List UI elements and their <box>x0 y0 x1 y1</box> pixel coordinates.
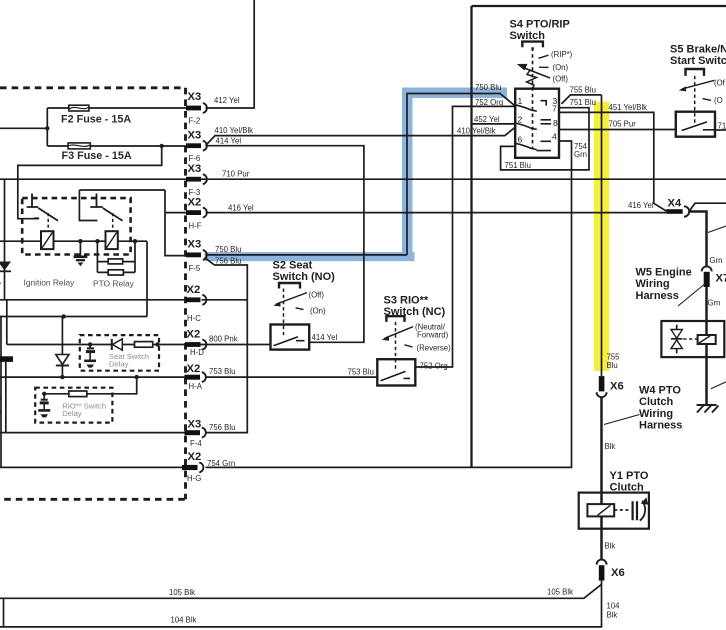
svg-text:105 Blk: 105 Blk <box>547 588 573 597</box>
svg-text:753 Blu: 753 Blu <box>209 367 235 376</box>
wire 412 Yel (F-2 to top edge) <box>206 0 255 108</box>
Y1 coil <box>587 504 614 516</box>
svg-text:Clutch: Clutch <box>610 482 645 494</box>
svg-text:u: u <box>0 393 1 402</box>
svg-text:X4: X4 <box>668 197 682 209</box>
svg-text:Ignition Relay: Ignition Relay <box>24 278 76 288</box>
connector arc X3 F-2 <box>203 103 207 113</box>
wire 410 Yel/Blk (F-6 to S4 pin 2) <box>206 127 516 146</box>
X7 arc <box>702 266 712 271</box>
svg-text:X3: X3 <box>188 418 202 430</box>
connector X2 H-A <box>185 375 201 380</box>
svg-text:2: 2 <box>518 115 523 125</box>
svg-text:X3: X3 <box>188 130 202 142</box>
connector arc X2 H-F <box>203 208 207 218</box>
wire 753 Blu row <box>0 376 377 378</box>
Y1 clutch plates and arc <box>633 501 646 521</box>
svg-text:X6: X6 <box>611 567 625 579</box>
svg-text:Delay: Delay <box>109 359 129 368</box>
PTO relay coil <box>106 231 118 249</box>
svg-text:Y1 PTO: Y1 PTO <box>610 470 649 482</box>
svg-text:8: 8 <box>553 118 558 128</box>
svg-text:Harness: Harness <box>636 290 679 302</box>
wire H-C row left <box>0 299 187 301</box>
svg-text:X7: X7 <box>716 273 726 285</box>
svg-text:751 Blu: 751 Blu <box>505 161 531 170</box>
svg-text:S2 Seat: S2 Seat <box>273 260 313 272</box>
ignition relay coil <box>41 231 118 249</box>
fuse F3 curve <box>69 145 90 146</box>
svg-text:PTO Relay: PTO Relay <box>93 279 135 289</box>
svg-text:X3: X3 <box>188 91 202 103</box>
svg-text:Switch (NC): Switch (NC) <box>384 306 446 318</box>
connector X2 H-F <box>186 210 201 215</box>
svg-text:7: 7 <box>552 104 557 114</box>
wire X4 to X7 (Grn) <box>690 212 707 267</box>
main harness dashed boundary (left module) <box>0 88 186 500</box>
diode (seat delay, on 800 Pnk row) <box>112 339 123 350</box>
PTO relay contact <box>90 194 122 221</box>
svg-text:Switch (NO): Switch (NO) <box>273 271 336 283</box>
wire 754 Grn (H-G row to S4 pin 4) <box>0 141 572 467</box>
svg-text:F-5: F-5 <box>189 264 201 273</box>
svg-text:104 Blk: 104 Blk <box>171 615 197 624</box>
wire 452 Yel <box>472 123 516 125</box>
svg-text:(Reverse): (Reverse) <box>417 344 452 353</box>
PTO relay resistor 1 <box>108 259 123 264</box>
svg-text:X3: X3 <box>188 238 202 250</box>
S5 switch contact inside <box>682 122 715 131</box>
wire X4 upper branch off-page <box>689 203 726 211</box>
svg-text:S3 RIO**: S3 RIO** <box>384 295 429 307</box>
RIO Switch Delay dashed box <box>35 388 112 423</box>
wire F2 fuse row <box>47 107 186 109</box>
svg-text:416 Yel: 416 Yel <box>628 201 654 210</box>
Seat Switch Delay dashed box <box>80 335 159 371</box>
svg-text:Blk: Blk <box>605 442 616 451</box>
connector arc X2 H-A <box>202 372 206 382</box>
wire RIO delay RC link <box>44 377 137 394</box>
connector X6 upper bar <box>599 376 605 391</box>
svg-text:Wiring: Wiring <box>636 278 670 290</box>
svg-text:Wiring: Wiring <box>639 408 673 420</box>
wire 416 Yel (H-F row to X4) <box>206 212 667 214</box>
relay module dashed box <box>22 198 130 254</box>
connector X2 H-C <box>185 297 201 302</box>
connector arcs <box>199 103 711 565</box>
svg-text:X6: X6 <box>610 381 624 393</box>
svg-text:(RIP*): (RIP*) <box>551 50 573 59</box>
svg-text:H-A: H-A <box>189 382 203 391</box>
svg-text:104: 104 <box>607 602 621 611</box>
relay coil dashed actuator links <box>48 213 113 231</box>
svg-text:Harness: Harness <box>639 420 682 432</box>
connector arc X3 F-6 <box>203 141 207 151</box>
svg-text:H-C: H-C <box>187 314 201 323</box>
W5 engine harness component box <box>661 321 724 357</box>
svg-text:(Off): (Off) <box>553 75 569 84</box>
svg-text:750 Blu: 750 Blu <box>215 245 241 254</box>
connector X3 F-3 <box>186 177 201 182</box>
svg-text:105 Blk: 105 Blk <box>169 588 195 597</box>
svg-text:(Of: (Of <box>714 79 726 88</box>
wire far left edge vertical <box>0 317 2 468</box>
S2 lever and arrow <box>273 293 307 310</box>
S4 center dashed line <box>532 48 534 149</box>
connector arc X2 H-C <box>202 295 206 305</box>
svg-text:H-D: H-D <box>190 348 204 357</box>
connector arc X2 H-G <box>199 462 203 472</box>
diode D2 (left, above 753 row) <box>56 355 69 366</box>
S5 lever and arrow <box>679 80 715 100</box>
svg-text:705 Pur: 705 Pur <box>609 119 637 128</box>
svg-text:Blk: Blk <box>605 541 616 550</box>
svg-text:750 Blu: 750 Blu <box>475 83 501 92</box>
svg-text:751 Blu: 751 Blu <box>570 98 596 107</box>
wire 751 Blu loop (S4 pin 6 to pin 7) <box>501 108 589 170</box>
connector X6 lower bar <box>599 565 605 580</box>
pointer line W4 label to wire <box>604 415 640 425</box>
wire 451 Yel/Blk (S4 to X4) <box>559 112 666 211</box>
capacitor (RIO delay) <box>40 394 49 410</box>
svg-text:410 Yel/Blk: 410 Yel/Blk <box>215 126 254 135</box>
svg-text:Start Switch: Start Switch <box>670 55 726 67</box>
connector bar cut at left edge <box>0 356 13 362</box>
svg-text:F3 Fuse - 15A: F3 Fuse - 15A <box>62 150 132 162</box>
svg-text:Switch: Switch <box>510 30 546 42</box>
svg-text:452 Yel: 452 Yel <box>474 115 500 124</box>
svg-text:Grn: Grn <box>574 150 587 159</box>
wire 755 Blu (S4 pin 3 down to X6) <box>562 95 602 376</box>
diode D1 (far left edge) <box>0 262 11 272</box>
S2 bracket <box>279 283 300 289</box>
connector arc X3 F-5 <box>203 250 207 260</box>
S4 pole 1 contacts <box>515 101 551 151</box>
wire relay coil row and return <box>0 241 147 316</box>
ignition relay contact <box>27 194 123 221</box>
engine ground symbol <box>697 405 719 413</box>
svg-text:710 Pur: 710 Pur <box>222 170 250 179</box>
wire diode branch far left <box>4 179 6 300</box>
pointer line W5 label to wire <box>678 283 707 307</box>
svg-text:Grn: Grn <box>708 299 721 308</box>
highlight 755 Blu yellow marker band <box>594 102 609 372</box>
wire S5 output 710 <box>715 129 726 131</box>
S3 RIO Switch box <box>377 359 415 385</box>
fuse F2 symbol <box>68 105 90 149</box>
S4 bracket <box>522 42 543 50</box>
wire relay ground stub <box>79 241 81 256</box>
S4 pole 2 contacts <box>515 123 537 129</box>
wire diode2 branch <box>61 317 63 378</box>
connector X2 H-G <box>182 465 198 470</box>
wire fuse feed from left edge <box>0 108 47 146</box>
svg-text:X2: X2 <box>187 284 201 296</box>
connector X7 bar <box>704 272 710 287</box>
svg-text:S4 PTO/RIP: S4 PTO/RIP <box>510 19 570 31</box>
svg-text:756 Blu: 756 Blu <box>209 423 235 432</box>
S4 lever arrow and positions <box>517 55 550 78</box>
svg-text:6: 6 <box>518 135 523 145</box>
svg-text:(On): (On) <box>310 307 326 316</box>
svg-text:F-4: F-4 <box>190 439 202 448</box>
S2 Seat Switch box <box>271 325 310 350</box>
resistor (seat delay) <box>135 342 153 348</box>
svg-text:414 Yel: 414 Yel <box>216 136 242 145</box>
svg-text:Delay: Delay <box>62 409 82 418</box>
wire bottom left stub <box>3 598 5 627</box>
wire 752 Org (S4 pin1 to S3) <box>415 106 515 367</box>
S4 pole 3 contacts <box>515 143 537 149</box>
X4 arc <box>684 206 689 216</box>
Y1 PTO clutch box <box>579 493 649 529</box>
svg-text:W5 Engine: W5 Engine <box>636 266 692 278</box>
S5 dashed actuator <box>694 76 696 124</box>
wire F3 link to ignition relay pivot <box>18 146 162 219</box>
S4 spring zigzag <box>527 70 537 89</box>
svg-text:71: 71 <box>718 121 726 130</box>
svg-text:X2: X2 <box>187 363 201 375</box>
connector bars X3/X2 on boundary <box>0 106 710 581</box>
svg-text:752 Org: 752 Org <box>475 98 503 107</box>
wire 756 Blu net (F-5 to F-4 and H-C) <box>202 258 248 433</box>
S2 switch contact inside <box>274 337 305 346</box>
svg-text:y: y <box>0 280 1 289</box>
svg-text:412 Yel: 412 Yel <box>214 96 240 105</box>
wire 750 Blu (F-5 to S4 pin 1) <box>206 94 516 255</box>
ground (seat delay) <box>84 361 96 368</box>
svg-text:752 Org: 752 Org <box>420 361 448 370</box>
relay coil (W5) <box>698 335 716 344</box>
fuse F2 curve <box>70 107 89 108</box>
connector X3 F-6 <box>186 143 201 148</box>
capacitor (seat delay) <box>86 345 95 360</box>
svg-text:753 Blu: 753 Blu <box>348 367 374 376</box>
X6 lower arc <box>597 560 607 565</box>
wire 710 Pur (F-3 row, full width) <box>0 178 726 180</box>
wire PTO relay resistor loop <box>97 241 135 272</box>
svg-text:756 Blu: 756 Blu <box>215 256 241 265</box>
connector X3 F-2 <box>186 106 201 111</box>
S4 PTO/RIP switch box <box>515 89 559 158</box>
wire 705 Pur (S4 to S5) <box>559 129 676 131</box>
svg-text:X2: X2 <box>187 328 201 340</box>
wire 414 Yel (F-6 to S2 box) <box>206 146 364 343</box>
S3 bracket <box>386 316 404 322</box>
svg-text:(On): (On) <box>553 63 569 72</box>
svg-text:754 Grn: 754 Grn <box>207 459 235 468</box>
wire X7 to engine ground <box>705 287 708 405</box>
svg-text:F-2: F-2 <box>189 117 201 126</box>
svg-text:n: n <box>0 408 1 417</box>
wire F3 fuse row <box>47 145 186 147</box>
svg-text:F-6: F-6 <box>189 154 201 163</box>
S3 dashed actuator <box>395 322 397 372</box>
svg-text:X2: X2 <box>188 196 202 208</box>
svg-text:800 Pnk: 800 Pnk <box>209 334 238 343</box>
wire Blk X6 to Y1 clutch <box>600 398 603 560</box>
svg-text:S5 Brake/N: S5 Brake/N <box>670 44 726 56</box>
svg-text:H-G: H-G <box>187 474 201 483</box>
wire 800 Pnk (left branch + row through seat delay to S2 box) <box>6 300 271 433</box>
svg-text:Forward): Forward) <box>417 331 449 340</box>
svg-text:451 Yel/Blk: 451 Yel/Blk <box>609 103 648 112</box>
svg-text:410 Yel/Blk: 410 Yel/Blk <box>457 126 496 135</box>
pointer line at right edge near W4 <box>711 382 726 389</box>
svg-text:Blk: Blk <box>607 610 618 619</box>
svg-text:F2 Fuse - 15A: F2 Fuse - 15A <box>61 113 131 125</box>
connector arc X3 F-4 <box>202 428 206 438</box>
wire 104 Blk <box>0 581 602 627</box>
S3 switch contact inside <box>381 371 411 380</box>
svg-text:W4 PTO: W4 PTO <box>639 384 681 396</box>
svg-text:(Off): (Off) <box>309 291 325 300</box>
highlight 750 Blu blue marker band <box>205 88 610 372</box>
svg-text:416 Yel: 416 Yel <box>228 203 254 212</box>
junction dots <box>42 126 164 396</box>
svg-text:(O: (O <box>714 96 723 105</box>
Y1 dashed link <box>614 509 629 511</box>
ground (RIO delay) <box>38 410 50 417</box>
connector X2 H-D <box>185 342 201 347</box>
connector X3 F-4 <box>185 430 201 435</box>
wire H-F / F-5 inner loop <box>79 190 187 256</box>
svg-text:Clutch: Clutch <box>639 396 674 408</box>
S5 Brake/Neutral start switch box <box>676 112 715 137</box>
resistor (RIO delay) <box>69 391 87 397</box>
X6 upper arc <box>597 392 607 397</box>
svg-text:414 Yel: 414 Yel <box>312 333 338 342</box>
svg-text:4: 4 <box>552 132 557 142</box>
svg-text:X2: X2 <box>188 451 202 463</box>
connector arc X3 F-3 <box>203 174 207 184</box>
S5 bracket <box>686 69 705 76</box>
S4 enclosure boundary box <box>472 6 726 467</box>
connector arc X2 H-D <box>202 340 206 350</box>
svg-text:1: 1 <box>518 96 523 106</box>
svg-text:H-F: H-F <box>189 222 202 231</box>
svg-text:Blu: Blu <box>607 361 618 370</box>
fuse F3 body <box>68 143 90 149</box>
wire F-4 row left <box>0 432 187 434</box>
zener diode pair inside W5 box <box>671 325 682 354</box>
connector X3 F-5 <box>186 253 201 258</box>
ground symbol (relay module) <box>74 257 88 266</box>
svg-text:755 Blu: 755 Blu <box>570 86 596 95</box>
svg-text:X3: X3 <box>188 163 202 175</box>
connector X4 bar <box>666 209 683 214</box>
PTO relay resistor 2 <box>108 270 123 275</box>
dashed link to relay coil (W5) <box>683 338 697 340</box>
wire 105 Blk <box>0 584 602 598</box>
svg-text:Grn: Grn <box>710 256 723 265</box>
S3 lever and arrow <box>382 327 413 347</box>
S2 dashed actuator <box>283 289 285 338</box>
